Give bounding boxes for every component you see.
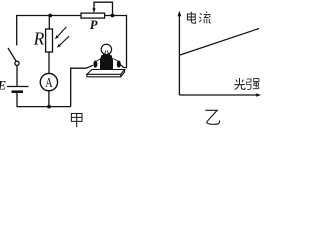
svg-text:A: A bbox=[45, 76, 53, 91]
svg-text:P: P bbox=[90, 18, 98, 32]
svg-text:E: E bbox=[0, 77, 7, 92]
svg-text:R: R bbox=[33, 28, 45, 48]
